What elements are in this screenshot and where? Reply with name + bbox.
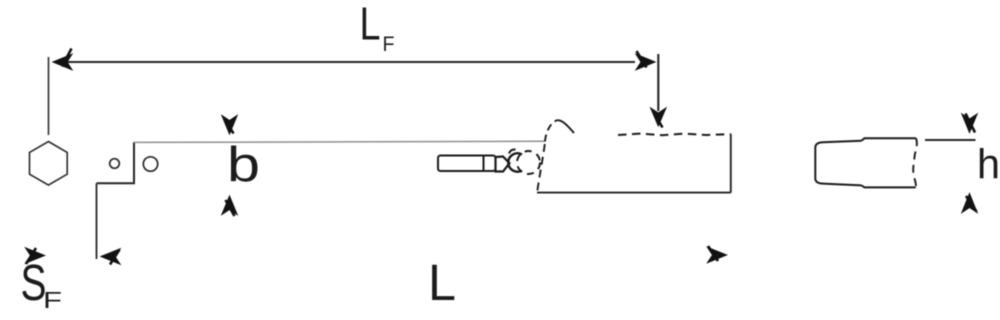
grip piece break edge dashed xyxy=(913,138,917,187)
arrowhead b bottom (up) xyxy=(223,197,237,216)
svg-text:F: F xyxy=(383,33,395,56)
leader line down to force point xyxy=(657,54,659,111)
svg-text:h: h xyxy=(977,141,1000,188)
wire: L left extension line xyxy=(96,183,98,259)
grip piece outline (right part top) xyxy=(862,138,917,141)
dimension line L_F xyxy=(56,61,635,63)
arrowhead h bottom (up) xyxy=(963,195,977,212)
handle right edge xyxy=(730,134,732,193)
break hump solid xyxy=(557,120,574,133)
wire: L_F left extension line xyxy=(48,57,50,135)
shaft top edge line xyxy=(134,141,545,142)
arrowhead b top (down) xyxy=(223,117,237,134)
svg-text:L: L xyxy=(360,0,381,50)
ratchet tab xyxy=(509,149,516,153)
handle top dashed edge xyxy=(618,134,731,136)
large hole circle xyxy=(143,157,157,171)
arrowhead L left (pointing left) xyxy=(102,250,120,265)
arrowhead L_F left xyxy=(54,49,72,70)
bolster pentagon xyxy=(496,157,510,172)
small hole circle xyxy=(110,159,120,169)
h reference line xyxy=(925,139,976,141)
break line dashed (lower) xyxy=(537,144,545,192)
arrowhead L_F right xyxy=(637,51,655,69)
arrowhead force down xyxy=(652,109,666,128)
grip piece outline (left part) xyxy=(815,141,861,186)
svg-text:b: b xyxy=(227,138,260,192)
break line dashed (upper) xyxy=(545,120,557,141)
tool step outline left end xyxy=(97,142,135,183)
bit divider line xyxy=(483,156,485,172)
drive bit rectangle xyxy=(438,156,496,172)
arrowhead L right (pointing right) xyxy=(708,246,726,262)
svg-text:L: L xyxy=(428,254,456,311)
svg-text:F: F xyxy=(43,287,62,313)
arrowhead h top (down) xyxy=(963,114,977,133)
ratchet outer dashed circle xyxy=(517,151,540,174)
arrowhead S_F (right) xyxy=(26,248,44,264)
hexagon (hex end S_F) xyxy=(30,142,68,186)
ratchet inner circle xyxy=(508,153,522,171)
handle bottom edge xyxy=(537,192,731,194)
grip piece outline (right part bottom) xyxy=(862,185,916,187)
